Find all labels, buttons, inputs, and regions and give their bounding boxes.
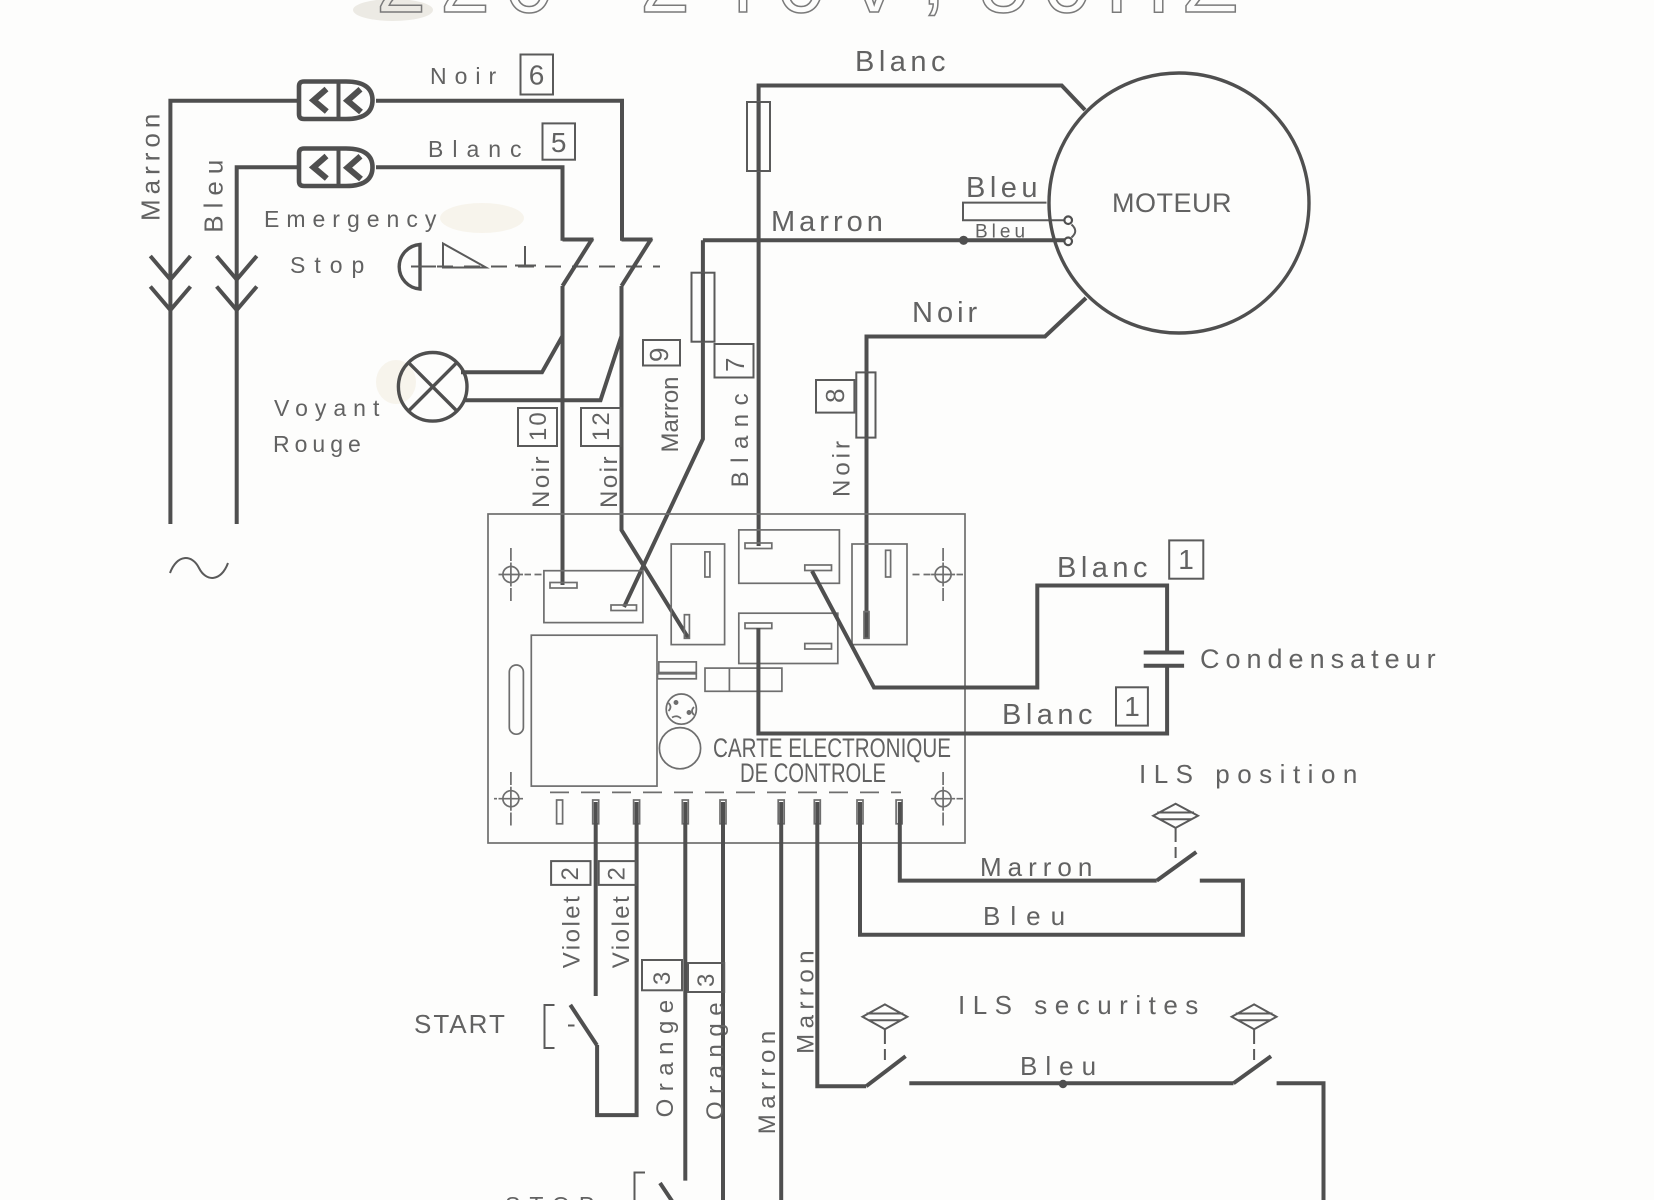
- relay K4: [739, 613, 838, 663]
- capacitor round large: [659, 728, 700, 769]
- svg-text:Blanc: Blanc: [855, 46, 950, 78]
- wire Violet 2 (pin P2 to START switch): [594, 802, 598, 996]
- svg-text:Violet: Violet: [559, 894, 586, 969]
- svg-text:Noir: Noir: [596, 454, 623, 508]
- wire Blanc 5 (connector to switch 1): [376, 167, 563, 241]
- label box 3 (second): [688, 963, 724, 992]
- connector CN2 (Blanc 5): [299, 149, 373, 187]
- terminal bar K4-b: [805, 644, 832, 650]
- label box 5: [543, 123, 576, 159]
- svg-text:Marron: Marron: [980, 852, 1098, 882]
- switch ILS securites 1 blade: [866, 1056, 905, 1086]
- emergency stop dashed link: [437, 266, 660, 268]
- svg-text:12: 12: [588, 410, 615, 441]
- fuse F2 (Marron 9): [692, 273, 715, 342]
- svg-text:10: 10: [525, 410, 552, 441]
- pin P8: [857, 800, 863, 824]
- emergency stop stem: [411, 266, 436, 268]
- slot (rounded): [509, 665, 523, 734]
- svg-text:STOP: STOP: [505, 1192, 603, 1200]
- wire Noir 6 (connector to switch 2): [376, 101, 622, 241]
- emergency stop mushroom head: [399, 245, 420, 290]
- switch ES2 pivot nub: [622, 238, 653, 242]
- svg-text:Bleu: Bleu: [975, 222, 1029, 243]
- svg-text:Bleu: Bleu: [983, 901, 1075, 931]
- svg-text:50HZ: 50HZ: [979, 0, 1251, 32]
- wire Blanc 1 upper (relay K3 to condensateur top): [812, 571, 1167, 688]
- label box 2 (first): [551, 861, 590, 885]
- svg-text:Blanc: Blanc: [1002, 699, 1097, 731]
- fuse F3 (Noir 8): [856, 372, 875, 437]
- wire Bleu (ILS securites link): [909, 1081, 1233, 1085]
- pin P4: [682, 800, 688, 824]
- wire Bleu ILS position return (pin P8): [860, 802, 1243, 935]
- terminal bar K2-a: [705, 552, 710, 577]
- pin P2: [593, 800, 599, 824]
- svg-text:1: 1: [1124, 691, 1140, 722]
- label box 6: [521, 55, 554, 95]
- svg-text:9: 9: [644, 348, 674, 362]
- svg-text:Blanc: Blanc: [1057, 552, 1152, 584]
- AC tilde symbol: [170, 558, 228, 578]
- relay K5: [852, 544, 907, 645]
- svg-text:ILS position: ILS position: [1139, 759, 1365, 789]
- switch ES2 blade: [622, 239, 652, 287]
- terminal bar K3-b: [805, 565, 832, 571]
- svg-text:Noir: Noir: [528, 454, 555, 508]
- pin P5: [720, 800, 726, 824]
- svg-text:220: 220: [376, 0, 568, 32]
- svg-text:3: 3: [693, 974, 720, 987]
- junction dot Marron/Bleu: [959, 236, 968, 245]
- wire Blanc 7 (top horizontal + into motor + down through fuse to PCB): [759, 86, 1085, 547]
- terminal bar K5-b: [864, 612, 869, 639]
- svg-text:Stop: Stop: [290, 252, 373, 278]
- svg-text:3: 3: [649, 972, 676, 985]
- pin P7: [814, 800, 820, 824]
- svg-text:Marron: Marron: [793, 945, 820, 1054]
- switch STOP blade (cut off): [660, 1183, 688, 1200]
- svg-text:Condensateur: Condensateur: [1200, 644, 1442, 674]
- motor terminal upper: [1064, 216, 1072, 224]
- connector 3-cell: [705, 668, 782, 691]
- terminal bar K3-a: [745, 543, 772, 549]
- PCB outline CARTE ELECTRONIQUE: [488, 514, 965, 843]
- svg-text:240V: 240V: [640, 0, 922, 32]
- label box 1 lower: [1116, 687, 1148, 725]
- PCB bottom dashed line: [550, 791, 901, 793]
- junction dot on Bleu: [1059, 1080, 1067, 1088]
- label box 8: [816, 380, 854, 413]
- pin P1: [557, 800, 563, 824]
- svg-text:Bleu: Bleu: [1020, 1051, 1104, 1081]
- wire Noir 12 (switch2 down, branch to PCB): [622, 286, 689, 638]
- mounting hole bottom-left: [494, 772, 523, 826]
- svg-text:Orange: Orange: [702, 995, 729, 1120]
- arrowhead Bleu chevron 1: [217, 256, 257, 280]
- lamp X stroke 1: [409, 363, 457, 411]
- terminal bar K1-a: [550, 583, 577, 589]
- svg-text:8: 8: [820, 389, 850, 403]
- wire Marron (pin P7 to ILS securites): [817, 802, 866, 1086]
- switch ILS position blade: [1157, 852, 1197, 881]
- switch ES1 pivot nub: [563, 238, 594, 242]
- svg-text:,: ,: [921, 0, 946, 24]
- svg-text:Bleu: Bleu: [199, 153, 229, 233]
- emergency stop latch T symbol: [515, 246, 536, 266]
- arrowhead Marron chevron 2: [150, 287, 190, 311]
- svg-text:Rouge: Rouge: [273, 431, 366, 457]
- wire Marron (pin P6 to bottom edge): [779, 802, 783, 1200]
- svg-text:Voyant: Voyant: [274, 395, 386, 421]
- svg-text:MOTEUR: MOTEUR: [1112, 188, 1232, 218]
- svg-text:START: START: [414, 1009, 507, 1039]
- sensor ILS securites 2 diamond: [1232, 1004, 1277, 1060]
- relay K1: [544, 571, 643, 623]
- condensateur plate bottom: [1144, 664, 1184, 668]
- wire Blanc 1 lower (relay K4 to condensateur bottom): [758, 628, 1167, 734]
- label box 12: [581, 408, 621, 446]
- svg-text:Blanc: Blanc: [727, 385, 754, 488]
- svg-text:Marron: Marron: [657, 376, 684, 452]
- pin P9: [896, 800, 902, 824]
- arrowhead Marron chevron 1: [150, 256, 190, 280]
- title 220-240V ; 50HZ (cut off at top): [376, 0, 1251, 32]
- svg-text:Marron: Marron: [754, 1025, 781, 1134]
- sensor ILS position diamond: [1153, 804, 1198, 858]
- sensor ILS securites 1 diamond: [863, 1004, 908, 1060]
- wire Orange 3 (pin P5 to bottom edge): [721, 802, 725, 1200]
- label box 2 (second): [599, 861, 637, 885]
- Bleu sleeve bar (outlined): [963, 203, 1065, 221]
- label box 7: [715, 344, 754, 378]
- switch ES1 blade: [563, 239, 593, 287]
- label box 1 upper: [1169, 540, 1203, 578]
- wire Bleu return (to bottom edge): [1277, 1083, 1324, 1200]
- wire Orange 3 (pin P4 to STOP switch): [683, 802, 687, 1181]
- relay K2: [671, 544, 724, 645]
- svg-text:ILS securites: ILS securites: [958, 990, 1206, 1020]
- capacitor electrolytic (crimped): [666, 694, 696, 724]
- svg-text:Bleu: Bleu: [966, 172, 1042, 204]
- transformer block: [531, 635, 657, 786]
- terminal bar K2-b: [684, 615, 689, 639]
- lamp Voyant Rouge circle: [398, 353, 467, 422]
- motor terminal bracket: [1072, 225, 1076, 238]
- switch START blade: [570, 1005, 597, 1045]
- svg-text:Marron: Marron: [136, 109, 166, 221]
- switch ILS securites 2 blade: [1234, 1056, 1272, 1083]
- wire Noir 8 (motor diagonal, horizontal, down through fuse to PCB): [867, 298, 1087, 638]
- scan smudge near title: [353, 0, 433, 21]
- component rect small upper: [659, 662, 697, 673]
- pin P6: [778, 800, 784, 824]
- mounting hole top-right: [913, 548, 964, 601]
- svg-text:2: 2: [604, 867, 631, 880]
- svg-text:1: 1: [1178, 544, 1194, 575]
- label box 10: [518, 408, 557, 446]
- svg-text:Blanc: Blanc: [428, 136, 531, 162]
- label box 3 (first): [642, 960, 682, 990]
- fuse F1 (Blanc 7): [747, 102, 770, 171]
- wire lamp top link (diagonal to switch1 wire): [461, 336, 563, 372]
- wire Marron ILS position (pin P9): [900, 802, 1157, 881]
- svg-text:6: 6: [529, 60, 545, 91]
- svg-text:Emergency: Emergency: [264, 206, 443, 232]
- svg-text:Noir: Noir: [430, 63, 504, 89]
- wire Violet 2 return (pin P3 down, U-link to START bottom): [597, 802, 637, 1115]
- svg-text:DE CONTROLE: DE CONTROLE: [740, 758, 886, 788]
- svg-text:Orange: Orange: [652, 992, 679, 1117]
- lamp X stroke 2: [409, 363, 457, 411]
- wire Marron mains (left vertical): [170, 101, 299, 524]
- wire Marron (horizontal to motor): [703, 238, 1065, 242]
- svg-text:5: 5: [551, 127, 567, 158]
- switch START bracket: [545, 1005, 575, 1048]
- label box 9: [643, 340, 680, 366]
- mounting hole top-left: [499, 548, 542, 601]
- svg-text:2: 2: [557, 867, 584, 880]
- component rect small lower: [658, 674, 697, 679]
- terminal bar K4-a: [745, 623, 772, 629]
- terminal bar K5-a: [886, 550, 891, 577]
- connector CN1 (Noir 6): [299, 82, 373, 120]
- wire Noir 10 (switch1 down to PCB relay): [561, 286, 565, 585]
- terminal bar K1-b: [611, 605, 637, 611]
- mounting hole bottom-right: [931, 772, 963, 826]
- emergency stop actuator wedge: [443, 244, 486, 268]
- motor circle MOTEUR: [1049, 73, 1309, 333]
- svg-text:Violet: Violet: [608, 894, 635, 969]
- svg-text:7: 7: [720, 358, 750, 372]
- relay K3: [739, 530, 840, 583]
- svg-text:Noir: Noir: [912, 297, 981, 329]
- svg-text:Marron: Marron: [771, 206, 887, 238]
- wire lamp bottom link (to switch2 wire): [464, 336, 622, 400]
- wire Bleu mains (left vertical): [237, 167, 299, 524]
- wire Marron 9 (down through fuse, diagonal to PCB relay): [624, 240, 703, 607]
- svg-text:Noir: Noir: [829, 437, 856, 497]
- arrowhead Bleu chevron 2: [217, 287, 257, 311]
- motor terminal lower: [1064, 238, 1072, 246]
- condensateur plate top: [1144, 651, 1184, 655]
- pin P3: [634, 800, 640, 824]
- switch STOP bracket: [635, 1173, 646, 1200]
